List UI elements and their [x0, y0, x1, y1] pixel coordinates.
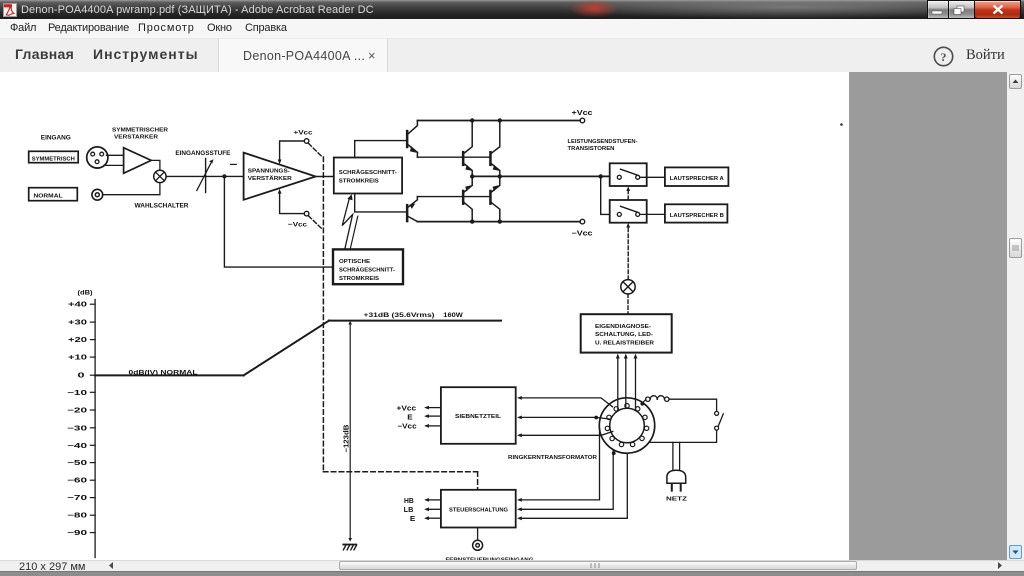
- svg-text:RINGKERNTRANSFORMATOR: RINGKERNTRANSFORMATOR: [508, 455, 598, 461]
- svg-text:SYMMETRISCH: SYMMETRISCH: [32, 156, 75, 162]
- svg-text:+30: +30: [68, 320, 87, 327]
- svg-text:E: E: [407, 414, 413, 421]
- svg-text:SIEBNETZTEIL: SIEBNETZTEIL: [455, 414, 502, 420]
- inverting input tick: [231, 163, 237, 165]
- svg-text:+20: +20: [68, 337, 87, 344]
- svg-text:LAUTSPRECHER B: LAUTSPRECHER B: [670, 213, 724, 219]
- input terminal box SYMMETRISCH: [29, 151, 78, 162]
- block EIGENDIAGNOSE SCHALTUNG: [581, 314, 672, 352]
- wire RCA to selector: [103, 183, 160, 195]
- svg-text:+Vcc: +Vcc: [294, 130, 313, 137]
- svg-text:OPTISCHE: OPTISCHE: [339, 259, 370, 265]
- gain curve ramp segment: [244, 321, 329, 376]
- gain curve 0dB segment: [95, 374, 244, 376]
- output arrow -Vcc: [397, 424, 441, 431]
- toroidal transformer T1: [599, 398, 654, 453]
- output arrow +Vcc: [397, 406, 441, 413]
- wire U1 output to selector: [151, 160, 160, 170]
- svg-text:+40: +40: [68, 302, 87, 309]
- dashed control arrow to K1: [626, 186, 630, 199]
- svg-text:SYMMETRISCHER: SYMMETRISCHER: [112, 128, 168, 134]
- mains plug: [667, 470, 686, 490]
- control sense wire 3: [517, 453, 627, 520]
- block LAUTSPRECHER A: [665, 167, 729, 186]
- svg-text:SCHRÄGESCHNITT-: SCHRÄGESCHNITT-: [339, 267, 395, 274]
- svg-text:+10: +10: [68, 355, 87, 362]
- svg-text:EINGANG: EINGANG: [41, 136, 71, 142]
- fault indicator lamp: [621, 280, 635, 294]
- svg-text:−123dB: −123dB: [344, 425, 351, 453]
- node feedback tap: [222, 174, 226, 178]
- output arrow E2: [410, 516, 441, 523]
- wire feedback down to optical box: [224, 176, 333, 267]
- RCA jack J2: [92, 189, 103, 200]
- negative supply rail: [417, 221, 580, 223]
- +Vcc supply feed to U2: [278, 139, 309, 165]
- svg-text:LB: LB: [404, 507, 414, 514]
- sense wire 1 to diagnosis box: [616, 354, 620, 411]
- label +31dB level: [364, 312, 464, 319]
- wire bias box bottom to T6 base: [355, 194, 406, 212]
- svg-text:E: E: [410, 516, 416, 523]
- fuse F1: [644, 396, 670, 402]
- switch dash -Vcc: [308, 216, 322, 229]
- wire switch to mains return: [649, 430, 717, 442]
- svg-text:0: 0: [78, 373, 85, 380]
- -Vcc terminal: [572, 219, 593, 237]
- node rail C: [470, 219, 474, 223]
- svg-text:+Vcc: +Vcc: [572, 110, 593, 117]
- -Vcc supply feed to U2: [278, 189, 309, 216]
- mains switch S1: [715, 411, 724, 430]
- positive supply rail: [417, 120, 580, 122]
- op-amp U1 balanced buffer: [124, 148, 152, 174]
- variable attenuator EINGANGSSTUFE: [197, 159, 214, 193]
- dashed protection rail vertical: [322, 157, 324, 472]
- axis ticks: [90, 304, 95, 532]
- svg-text:−20: −20: [67, 408, 87, 415]
- svg-text:−40: −40: [67, 443, 87, 450]
- input terminal box NORMAL: [29, 188, 78, 201]
- svg-text:−Vcc: −Vcc: [288, 221, 307, 228]
- svg-text:STEUERSCHALTUNG: STEUERSCHALTUNG: [449, 508, 508, 514]
- status bar + horizontal scrollbar: [0, 560, 1024, 571]
- svg-text:SCHALTUNG, LED-: SCHALTUNG, LED-: [595, 332, 653, 338]
- control sense wire 1: [517, 429, 600, 502]
- block LAUTSPRECHER B: [665, 204, 728, 222]
- node out C: [599, 174, 603, 178]
- svg-text:?: ?: [941, 50, 947, 64]
- svg-text:−30: −30: [67, 425, 87, 432]
- node rail B: [498, 118, 502, 122]
- relay K2: [610, 200, 647, 223]
- block SIEBNETZTEIL: [441, 387, 516, 444]
- dashed protection rail horizontal: [323, 471, 477, 473]
- wire U2 output to bias box: [316, 176, 334, 178]
- output rail: [472, 175, 610, 177]
- caption buttons: [927, 0, 948, 19]
- node rail D: [498, 219, 502, 223]
- wire selector to voltage amp: [166, 175, 244, 177]
- svg-text:LAUTSPRECHER A: LAUTSPRECHER A: [670, 176, 724, 182]
- secondary wire 1: [517, 396, 613, 407]
- svg-text:160W: 160W: [443, 312, 463, 319]
- svg-text:0dB(IV) NORMAL: 0dB(IV) NORMAL: [129, 369, 198, 376]
- wire XLR to buffer amp pin2: [105, 164, 124, 166]
- svg-text:NETZ: NETZ: [666, 497, 688, 503]
- transistor Q6: [406, 197, 418, 223]
- dashed wire lamp to diagnosis box: [627, 294, 629, 314]
- svg-text:STROMKREIS: STROMKREIS: [339, 276, 379, 282]
- menu bar: [0, 19, 1024, 39]
- svg-text:−90: −90: [67, 530, 87, 537]
- gain curve +31dB segment: [329, 320, 501, 322]
- label LEISTUNGSENDSTUFEN-TRANSISTOREN: [568, 139, 638, 152]
- wire relay K2 to speaker B: [640, 213, 665, 215]
- svg-text:−Vcc: −Vcc: [397, 424, 416, 431]
- svg-text:−80: −80: [67, 513, 87, 520]
- svg-text:−60: −60: [67, 478, 87, 485]
- node page speck: [840, 123, 843, 126]
- svg-text:EIGENDIAGNOSE-: EIGENDIAGNOSE-: [595, 324, 651, 330]
- winding tap dot left: [594, 416, 598, 420]
- sense wire 3 to diagnosis box: [634, 354, 638, 411]
- winding tap dot bottom: [612, 451, 616, 455]
- dB axis: [94, 300, 96, 558]
- sign-in area: [931, 44, 956, 69]
- svg-text:LEISTUNGSENDSTUFEN-: LEISTUNGSENDSTUFEN-: [568, 139, 638, 145]
- dashed protection rail drop to control box: [477, 472, 479, 490]
- relay K1: [610, 163, 647, 186]
- svg-text:(dB): (dB): [78, 290, 93, 297]
- node out A: [470, 174, 474, 178]
- label SYMMETRISCHER VERSTARKER: [112, 128, 168, 141]
- plug cord wires: [673, 442, 680, 470]
- output arrow E: [407, 414, 441, 421]
- output arrow LB: [404, 507, 441, 514]
- secondary wire 2: [517, 416, 611, 420]
- block SCHRAEGESCHNITT-STROMKREIS: [334, 158, 402, 194]
- wire Q1 emitter to driver bases: [417, 156, 489, 158]
- svg-text:U. RELAISTREIBER: U. RELAISTREIBER: [595, 341, 654, 347]
- ground: [343, 545, 356, 550]
- transistor Q4: [462, 176, 472, 221]
- wire fuse to mains switch: [669, 399, 717, 411]
- acrobat app icon: [3, 3, 17, 17]
- winding tap dot top: [640, 402, 644, 406]
- transistor Q5: [489, 176, 500, 221]
- svg-text:NORMAL: NORMAL: [34, 194, 64, 200]
- sense wire 2 to diagnosis box: [624, 354, 628, 409]
- transistor Q1: [406, 121, 418, 158]
- axis scale labels: [67, 302, 87, 537]
- tab bar: [0, 39, 1024, 72]
- wire XLR to buffer amp pin1: [107, 154, 124, 156]
- block OPTISCHE SCHRAEGESCHNITT-STROMKREIS: [333, 249, 403, 284]
- svg-text:−10: −10: [67, 390, 87, 397]
- svg-text:−70: −70: [67, 495, 87, 502]
- node out B: [498, 174, 502, 178]
- svg-text:EINGANGSSTUFE: EINGANGSSTUFE: [175, 150, 230, 157]
- svg-text:−Vcc: −Vcc: [572, 230, 593, 237]
- transistor Q3: [489, 121, 500, 177]
- +Vcc terminal: [572, 110, 593, 123]
- output arrow HB: [404, 498, 441, 505]
- remote input jack: [473, 528, 483, 551]
- wire output to relay B: [601, 176, 610, 214]
- svg-text:+Vcc: +Vcc: [397, 406, 417, 413]
- optical coupling lightning arrow: [342, 194, 358, 249]
- wire Q6 emitter to driver bases lower: [417, 196, 489, 198]
- block STEUERSCHALTUNG: [441, 490, 516, 528]
- wire relay K1 to speaker A: [640, 176, 665, 178]
- range arrow -123dB: [344, 321, 352, 542]
- dashed control arrow to K2: [626, 223, 630, 280]
- document page (schematic SVG goes here): [0, 72, 849, 560]
- svg-text:STROMKREIS: STROMKREIS: [339, 179, 379, 185]
- svg-text:−50: −50: [67, 460, 87, 467]
- svg-text:HB: HB: [404, 498, 414, 505]
- transistor Q2: [462, 121, 472, 177]
- svg-text:VERSTARKER: VERSTARKER: [114, 135, 158, 141]
- XLR connector J1: [87, 147, 108, 168]
- wire bias box top to T1 base: [355, 141, 406, 158]
- svg-text:TRANSISTOREN: TRANSISTOREN: [568, 146, 615, 152]
- window title bar: [0, 0, 1024, 19]
- control sense wire 2: [517, 450, 613, 512]
- svg-text:WAHLSCHALTER: WAHLSCHALTER: [135, 203, 190, 209]
- svg-text:SPANNUNGS-: SPANNUNGS-: [248, 168, 290, 174]
- node rail A: [470, 118, 474, 122]
- secondary wire 3: [517, 432, 613, 438]
- svg-text:SCHRÄGESCHNITT-: SCHRÄGESCHNITT-: [339, 169, 397, 176]
- selector mixer node WAHLSCHALTER: [154, 170, 166, 182]
- vertical scrollbar: [1007, 72, 1024, 560]
- switch dash +Vcc: [308, 143, 322, 157]
- svg-text:VERSTÄRKER: VERSTÄRKER: [248, 175, 293, 182]
- svg-text:+31dB (35.6Vrms): +31dB (35.6Vrms): [364, 312, 435, 319]
- op-amp U2 SPANNUNGSVERSTAERKER: [244, 153, 316, 200]
